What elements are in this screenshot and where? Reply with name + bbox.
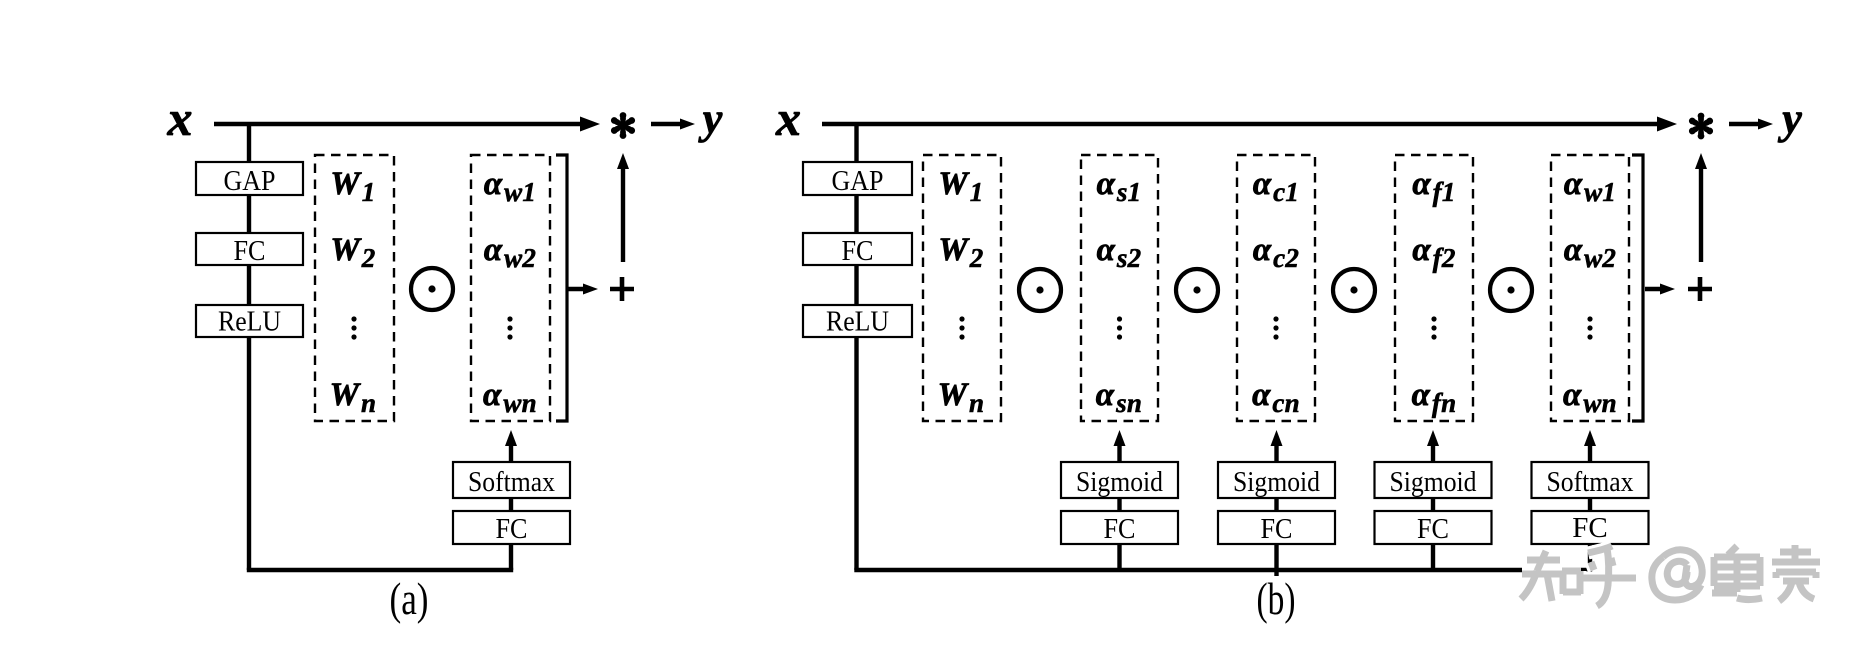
plus operator (a) [610, 277, 634, 301]
odot operator 3 (b) [1333, 269, 1375, 311]
vertical dots (b) W column [959, 316, 964, 339]
box ReLU (b) [803, 305, 912, 337]
svg-text:Softmax: Softmax [468, 466, 555, 498]
box GAP (a) [196, 162, 303, 195]
wire: FC down stub (a) [509, 544, 513, 570]
box GAP (b) [803, 162, 912, 195]
wire: FC2 down stub (b) [1274, 544, 1278, 576]
vertical dots (a) alpha column [507, 316, 512, 339]
svg-text:FC: FC [1572, 512, 1607, 544]
box Sigmoid 3 (b) [1375, 462, 1492, 498]
wire: bottom horizontal (a) [247, 568, 513, 572]
svg-text:FC: FC [1261, 513, 1293, 545]
wire: top horizontal arrow (a) [214, 122, 582, 126]
svg-text:Sigmoid: Sigmoid [1076, 466, 1163, 498]
wire: arrow softmax to alpha_w (b) [1588, 445, 1592, 462]
vertical dots (b) alpha_f column [1431, 316, 1436, 339]
wire: arrow sigmoid2 to alpha_c (b) [1274, 445, 1278, 462]
wire: vertical spine (b) [854, 122, 858, 570]
dashed box alpha_w (b) [1551, 155, 1629, 421]
box FC 1 (b) [1061, 511, 1178, 544]
svg-text:GAP: GAP [224, 165, 276, 197]
wire: FC4 down stub (b) [1588, 544, 1592, 572]
odot operator 2 (b) [1176, 269, 1218, 311]
wire: sigmoid3-FC connector (b) [1431, 498, 1435, 511]
vertical dots (b) alpha_c column [1273, 316, 1278, 339]
svg-text:x: x [167, 90, 193, 146]
svg-text:Softmax: Softmax [1547, 466, 1634, 498]
wire: softmax-FC connector (a) [509, 498, 513, 511]
watermark white halo [1521, 545, 1820, 606]
box Sigmoid 2 (b) [1218, 462, 1335, 498]
svg-text:ReLU: ReLU [826, 306, 889, 338]
box FC lower (a) [453, 511, 570, 544]
svg-text:(b): (b) [1257, 573, 1296, 624]
svg-text:x: x [775, 90, 801, 146]
wire: arrow conv to y (b) [1729, 122, 1760, 126]
watermark gray strokes [1521, 545, 1820, 606]
conv asterisk (b) [1688, 113, 1715, 140]
svg-text:Sigmoid: Sigmoid [1390, 466, 1477, 498]
wire: vertical spine (a) [247, 122, 251, 570]
box Softmax (a) [453, 462, 570, 498]
odot operator 1 (b) [1019, 269, 1061, 311]
wire: arrow bracket to plus (a) [568, 287, 585, 291]
box FC 3 (b) [1375, 511, 1492, 544]
svg-text:FC: FC [1417, 513, 1449, 545]
box Softmax (b) [1532, 462, 1649, 498]
box Sigmoid 1 (b) [1061, 462, 1178, 498]
dashed box alpha_s (b) [1081, 155, 1158, 421]
odot operator 4 (b) [1490, 269, 1532, 311]
box FC 2 (b) [1218, 511, 1335, 544]
wire: vertical arrow plus to conv (b) [1699, 168, 1703, 262]
wire: sigmoid2-FC connector (b) [1274, 498, 1278, 511]
bracket (a) [556, 155, 567, 421]
box ReLU (a) [196, 305, 303, 337]
svg-text:FC: FC [1104, 513, 1136, 545]
dashed box alpha (a) [471, 155, 550, 421]
box FC (b) [803, 233, 912, 265]
svg-text:FC: FC [234, 235, 266, 267]
dashed box alpha_c (b) [1237, 155, 1315, 421]
dashed box alpha_f (b) [1395, 155, 1473, 421]
wire: softmax-FC connector (b) [1588, 498, 1592, 511]
svg-text:Sigmoid: Sigmoid [1233, 466, 1320, 498]
wire: arrow softmax to alpha box (a) [509, 445, 513, 462]
vertical dots (b) alpha_s column [1117, 316, 1122, 339]
box FC 4 (b) [1532, 511, 1649, 544]
svg-text:(a): (a) [390, 573, 429, 624]
wire: arrow conv to y (a) [651, 122, 682, 126]
svg-text:ReLU: ReLU [218, 306, 281, 338]
odot operator (a) [411, 268, 453, 310]
wire: FC3 down stub (b) [1431, 544, 1435, 570]
wire: arrow sigmoid1 to alpha_s (b) [1117, 445, 1121, 462]
svg-text:FC: FC [842, 235, 874, 267]
conv asterisk (a) [610, 112, 637, 139]
dashed box W (b) [923, 155, 1001, 421]
bracket (b) [1632, 155, 1643, 421]
wire: sigmoid1-FC connector (b) [1117, 498, 1121, 511]
wire: arrow bracket to plus (b) [1645, 287, 1662, 291]
wire: vertical arrow plus to conv (a) [621, 168, 625, 262]
svg-text:FC: FC [496, 513, 528, 545]
dashed box W (a) [315, 155, 394, 421]
plus operator (b) [1688, 277, 1712, 301]
vertical dots (a) W column [351, 316, 356, 339]
box FC (a) [196, 233, 303, 265]
svg-text:GAP: GAP [832, 165, 884, 197]
wire: bottom horizontal (b) [854, 568, 1592, 572]
wire: FC1 down stub (b) [1117, 544, 1121, 570]
wire: top horizontal arrow (b) [822, 122, 1659, 126]
vertical dots (b) alpha_w column [1587, 316, 1592, 339]
wire: arrow sigmoid3 to alpha_f (b) [1431, 445, 1435, 462]
